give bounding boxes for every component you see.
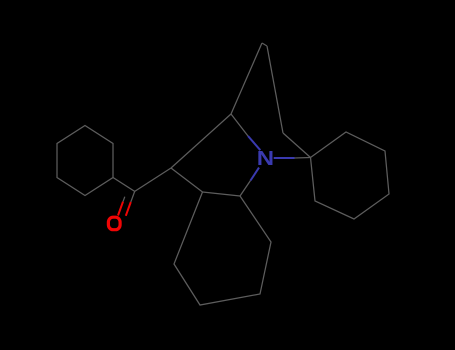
svg-text:N: N [257,147,274,170]
